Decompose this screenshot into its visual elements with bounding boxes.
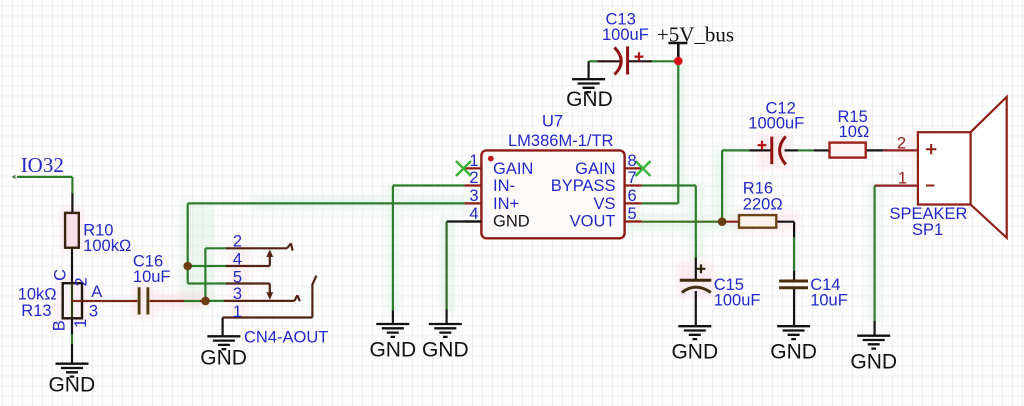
svg-text:BYPASS: BYPASS (551, 177, 616, 195)
svg-text:A: A (91, 283, 102, 301)
svg-text:2: 2 (72, 277, 90, 286)
svg-text:1: 1 (898, 170, 907, 188)
svg-text:GND: GND (493, 213, 530, 231)
svg-text:C: C (52, 269, 70, 281)
svg-text:220Ω: 220Ω (743, 195, 783, 213)
svg-text:2: 2 (233, 233, 242, 251)
svg-text:100uF: 100uF (602, 26, 649, 44)
svg-text:GND: GND (48, 374, 95, 397)
svg-text:7: 7 (628, 169, 637, 187)
svg-text:6: 6 (628, 187, 637, 205)
svg-text:U7: U7 (542, 113, 563, 131)
svg-text:5: 5 (628, 205, 637, 223)
svg-text:GND: GND (422, 339, 469, 362)
svg-text:IO32: IO32 (21, 153, 64, 177)
svg-text:100kΩ: 100kΩ (83, 237, 131, 255)
svg-text:10uF: 10uF (133, 268, 171, 286)
svg-text:IN+: IN+ (493, 195, 519, 213)
svg-text:5: 5 (233, 269, 242, 287)
svg-text:GND: GND (200, 347, 247, 370)
svg-text:LM386M-1/TR: LM386M-1/TR (508, 132, 614, 150)
svg-text:VS: VS (593, 195, 615, 213)
svg-text:GAIN: GAIN (575, 160, 615, 178)
svg-text:10kΩ: 10kΩ (18, 286, 57, 304)
svg-text:3: 3 (233, 285, 242, 303)
svg-text:1: 1 (72, 319, 90, 328)
svg-text:8: 8 (628, 152, 637, 170)
svg-text:2: 2 (897, 134, 906, 152)
svg-text:IN-: IN- (493, 177, 515, 195)
svg-text:100uF: 100uF (714, 291, 761, 309)
svg-text:GND: GND (369, 339, 416, 362)
svg-text:1: 1 (233, 303, 242, 321)
svg-text:3: 3 (469, 187, 478, 205)
svg-text:GAIN: GAIN (493, 160, 533, 178)
svg-text:+5V_bus: +5V_bus (657, 23, 734, 47)
svg-text:GND: GND (850, 351, 897, 374)
svg-text:R13: R13 (21, 302, 51, 320)
svg-text:10Ω: 10Ω (839, 123, 870, 141)
svg-text:4: 4 (469, 205, 478, 223)
svg-text:B: B (51, 320, 69, 331)
svg-text:CN4-AOUT: CN4-AOUT (244, 329, 328, 347)
svg-text:1: 1 (469, 152, 478, 170)
svg-text:3: 3 (89, 303, 98, 321)
svg-text:10uF: 10uF (810, 291, 848, 309)
svg-text:VOUT: VOUT (570, 213, 616, 231)
svg-text:GND: GND (770, 341, 817, 364)
svg-text:1000uF: 1000uF (748, 114, 804, 132)
svg-text:GND: GND (566, 88, 613, 111)
svg-text:2: 2 (469, 169, 478, 187)
svg-text:GND: GND (671, 341, 718, 364)
svg-text:SP1: SP1 (912, 221, 943, 239)
svg-text:4: 4 (233, 250, 242, 268)
